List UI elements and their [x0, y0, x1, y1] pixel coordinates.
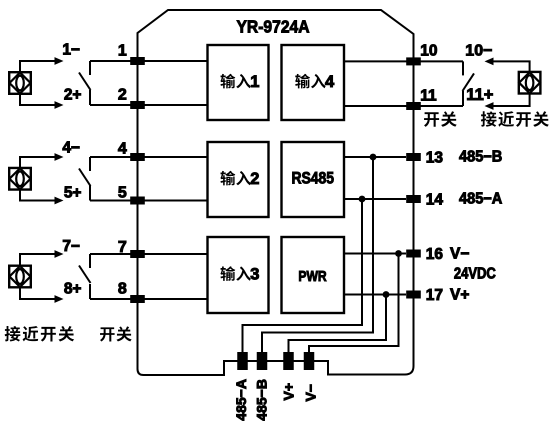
- svg-text:14: 14: [426, 192, 444, 209]
- svg-text:485−B: 485−B: [459, 148, 502, 166]
- proximity sensor B1: [9, 72, 31, 94]
- svg-text:24VDC: 24VDC: [454, 266, 496, 283]
- junction node V-: [395, 250, 402, 257]
- svg-text:7: 7: [118, 239, 127, 256]
- terminal 2: [130, 101, 145, 109]
- proximity sensor B4: [519, 72, 541, 94]
- block label 输入2: [220, 170, 259, 188]
- wire switch S2 to terminal 5 and block: [90, 200, 208, 202]
- junction node V+: [383, 291, 390, 298]
- label 接近开关 (right): [481, 111, 549, 127]
- svg-text:485−A: 485−A: [459, 190, 502, 208]
- svg-text:8+: 8+: [64, 281, 82, 298]
- wire 输入4 to terminal 11 and switch: [344, 105, 463, 107]
- svg-text:1: 1: [250, 73, 259, 91]
- svg-text:8: 8: [118, 281, 127, 298]
- bottom terminal 485-B: [257, 352, 268, 370]
- svg-text:10−: 10−: [465, 42, 492, 59]
- svg-text:4−: 4−: [62, 140, 80, 157]
- terminal 7: [130, 250, 145, 258]
- wire sensor B1 top to node 1: [20, 61, 56, 72]
- block U7 PWR: [282, 237, 345, 313]
- svg-text:16: 16: [426, 246, 444, 263]
- svg-text:4: 4: [325, 73, 335, 91]
- label 开关 (bottom left): [100, 326, 132, 341]
- svg-text:1−: 1−: [62, 42, 80, 59]
- wire switch S3 to terminal 8 and block: [90, 298, 208, 300]
- bottom terminal 485-A: [237, 352, 248, 370]
- wire sensor B3 top to node 7: [20, 254, 56, 265]
- wire PWR to terminal 17 (V+): [344, 294, 406, 296]
- wire sensor B2 bottom to node 5: [20, 190, 56, 200]
- svg-text:2: 2: [118, 86, 127, 103]
- switch S1: [89, 61, 91, 75]
- label 接近开关 (bottom left): [5, 326, 75, 342]
- wire sensor B3 bottom to node 8: [20, 288, 56, 299]
- svg-text:RS485: RS485: [291, 169, 334, 188]
- wire switch S1 to terminal 1 and block: [90, 60, 208, 62]
- block label 输入1: [220, 73, 259, 91]
- terminal 16: [406, 250, 421, 258]
- wire right sensor B4 bottom to node 11: [493, 94, 530, 106]
- svg-text:2: 2: [250, 170, 259, 188]
- svg-text:10: 10: [420, 42, 437, 59]
- svg-text:YR-9724A: YR-9724A: [236, 16, 309, 36]
- svg-text:7−: 7−: [62, 238, 80, 255]
- wire switch S1 to terminal 2 and block: [90, 104, 208, 106]
- terminal 17: [406, 291, 421, 299]
- svg-text:11+: 11+: [466, 86, 493, 104]
- wire right sensor B4 top to node 10: [493, 61, 530, 71]
- proximity sensor B3: [9, 266, 31, 288]
- svg-text:PWR: PWR: [298, 268, 326, 284]
- block U5 输入4: [282, 45, 345, 120]
- svg-text:4: 4: [118, 141, 127, 158]
- wire RS485 to terminal 13 (485-B): [344, 156, 406, 158]
- terminal 11: [406, 102, 421, 110]
- terminal 13: [406, 153, 421, 161]
- svg-text:485−B: 485−B: [253, 379, 269, 421]
- wire PWR to terminal 16 (V-): [344, 253, 406, 255]
- svg-text:13: 13: [426, 150, 444, 167]
- svg-text:V−: V−: [302, 384, 318, 402]
- terminal 1: [130, 57, 145, 65]
- svg-text:5: 5: [118, 185, 127, 202]
- svg-text:V+: V+: [450, 287, 469, 304]
- block U2 输入1: [208, 45, 269, 120]
- wire switch S2 to terminal 4 and block: [90, 156, 208, 158]
- wire 输入4 to terminal 10 and switch: [344, 60, 463, 62]
- wire node 485-B to bottom terminal 485-B: [262, 157, 373, 352]
- label 开关 (right): [424, 111, 457, 127]
- svg-text:17: 17: [426, 287, 443, 304]
- wire sensor B1 bottom to node 2: [20, 95, 56, 106]
- svg-text:V+: V+: [280, 383, 296, 401]
- proximity sensor B2: [9, 168, 31, 190]
- block label 输入3: [220, 266, 259, 284]
- wire RS485 to terminal 14 (485-A): [344, 198, 406, 200]
- svg-text:V−: V−: [450, 246, 469, 263]
- switch S4: [462, 61, 464, 75]
- block U6 RS485: [282, 142, 345, 217]
- module outline U1 YR-9724A: [138, 10, 414, 375]
- switch S2: [89, 157, 91, 171]
- terminal 8: [130, 295, 145, 303]
- wire node 485-A to bottom terminal 485-A: [243, 199, 363, 352]
- wire sensor B2 top to node 4: [20, 157, 56, 167]
- block U3 输入2: [208, 142, 269, 217]
- svg-text:11: 11: [420, 88, 437, 105]
- block U4 输入3: [208, 237, 269, 313]
- terminal 5: [130, 197, 145, 205]
- block label 输入4: [295, 73, 335, 91]
- junction node 485-B: [370, 154, 377, 161]
- terminal 4: [130, 153, 145, 161]
- wire switch S3 to terminal 7 and block: [90, 253, 208, 255]
- svg-text:485−A: 485−A: [233, 379, 249, 421]
- junction node 485-A: [359, 196, 366, 203]
- bottom terminal V-: [304, 352, 315, 370]
- wire node V+ to bottom terminal V+: [289, 295, 387, 353]
- wire node V- to bottom terminal V-: [309, 254, 399, 353]
- terminal 10: [406, 57, 421, 65]
- bottom terminal V+: [283, 352, 294, 370]
- svg-text:1: 1: [118, 43, 127, 60]
- switch S3: [89, 254, 91, 268]
- svg-text:5+: 5+: [64, 185, 82, 202]
- svg-text:3: 3: [250, 266, 259, 284]
- svg-text:2+: 2+: [64, 86, 82, 103]
- terminal 14: [406, 195, 421, 203]
